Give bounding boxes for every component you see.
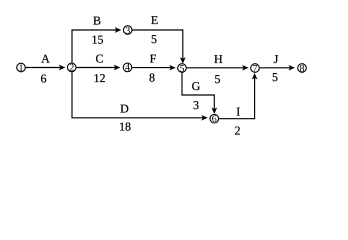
wire E (3-5) [132,30,185,64]
label F [150,51,157,65]
svg-text:2: 2 [69,63,74,74]
value 15 [92,33,104,47]
label H [214,52,223,66]
svg-text:5: 5 [151,32,157,46]
label D [120,102,129,116]
svg-text:18: 18 [119,120,131,134]
node 1 [17,63,26,74]
value 5 (E) [151,32,157,46]
svg-text:6: 6 [41,72,47,86]
wire I (6-7) [219,73,257,119]
value 8 [149,71,155,85]
node 6 [210,114,219,125]
value 5 (H) [215,72,221,86]
label I [236,104,240,118]
value 2 [235,124,241,138]
svg-text:E: E [151,13,158,27]
svg-text:15: 15 [92,33,104,47]
label C [95,51,103,65]
svg-text:H: H [214,52,223,66]
svg-text:3: 3 [125,25,130,36]
wire G (5-6) [182,73,217,114]
svg-text:5: 5 [272,70,278,84]
wire D (2-6) [72,72,208,121]
svg-text:8: 8 [149,71,155,85]
svg-text:7: 7 [253,63,258,74]
svg-text:6: 6 [212,114,217,125]
svg-text:J: J [274,52,279,66]
node 8 [298,63,307,74]
value 12 [94,71,106,85]
svg-text:D: D [120,102,129,116]
svg-text:F: F [150,51,157,65]
label B [93,14,101,28]
svg-text:1: 1 [19,63,24,74]
svg-text:5: 5 [215,72,221,86]
svg-text:4: 4 [125,63,130,74]
value 5 (J) [272,70,278,84]
wire C (2-4) [76,65,120,71]
label A [41,51,50,65]
svg-text:5: 5 [180,63,185,74]
node 3 [123,25,132,36]
label G [192,79,201,93]
wire J (7-8) [260,65,295,71]
value 3 [193,98,199,112]
value 6 [41,72,47,86]
svg-text:G: G [192,79,201,93]
svg-text:3: 3 [193,98,199,112]
label E [151,13,158,27]
value 18 [119,120,131,134]
wire A (1-2) [26,65,66,71]
svg-text:12: 12 [94,71,106,85]
svg-text:2: 2 [235,124,241,138]
svg-text:8: 8 [300,63,305,74]
node 7 [251,63,260,74]
label J [274,52,279,66]
wire B (2-3) [72,27,121,63]
svg-text:I: I [236,104,240,118]
svg-text:B: B [93,14,101,28]
wire H (5-7) [187,65,249,71]
node 4 [123,63,132,74]
svg-text:C: C [95,51,103,65]
wire F (4-5) [132,65,176,71]
svg-text:A: A [41,51,50,65]
node 5 [178,63,187,74]
node 2 [67,63,76,74]
